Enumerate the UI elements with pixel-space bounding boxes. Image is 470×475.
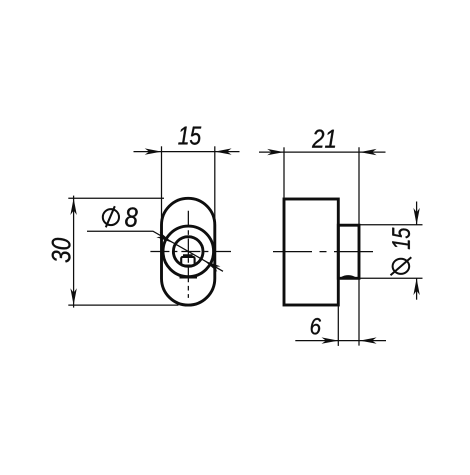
dimension 15: dimension line [134, 151, 240, 153]
dimension diam 15: bottom arrow [413, 278, 419, 295]
front view: spindle hole circle (diam 8) [173, 237, 203, 267]
dimension 21: left arrow [267, 149, 284, 155]
dimension 30: dimension line [73, 196, 75, 308]
dimension diam 8: text 8 [125, 207, 138, 227]
dimension 21: text [312, 130, 335, 148]
side view: fillet bump at boss bottom [341, 276, 355, 278]
dimension 30: top arrow [70, 198, 76, 215]
dimension 21: right arrow [360, 149, 377, 155]
dimension 15: extension lines [161, 146, 163, 224]
dimension 6: text [311, 318, 321, 335]
dimension 15: text [178, 127, 201, 145]
dimension 21: extension lines [283, 147, 285, 198]
dimension 6: extension line [337, 306, 339, 346]
front view: knob base circle [163, 226, 214, 277]
dimension diam 8: lower-right arrow [204, 261, 220, 272]
side view: knob body rectangle [284, 199, 338, 305]
front view: oval knob outline [162, 198, 215, 305]
dimension diam 8: upper-left arrow [156, 232, 172, 243]
dimension diam 15: extension lines [360, 224, 423, 226]
dimension 6: dimension line [295, 340, 386, 342]
front view: horizontal centerline [150, 251, 231, 253]
dimension 6: right arrow [360, 337, 377, 343]
front view: flat chord at bottom of base circle [180, 276, 198, 278]
side view: horizontal centerline [273, 251, 373, 253]
dimension diam 8: leader line [87, 231, 223, 271]
dimension 30: text [52, 238, 71, 263]
dimension diam 15: diameter symbol [393, 259, 410, 274]
dimension 21: dimension line [259, 151, 386, 153]
front view: vertical centerline [187, 211, 189, 298]
dimension diam 8: diameter symbol [103, 209, 119, 225]
dimension 6: left arrow [322, 337, 339, 343]
dimension 15: left arrow [145, 148, 162, 154]
dimension 30: bottom arrow [70, 288, 76, 305]
dimension 15: right arrow [215, 148, 232, 154]
dimension diam 15: text 15 [392, 228, 410, 250]
dimension diam 15: top arrow [413, 208, 419, 225]
side view: cylinder boss (diam 15) [338, 225, 359, 278]
dimension diam 15: dimension line segments [416, 202, 418, 225]
front view: keyway profile [181, 257, 194, 266]
dimension 30: extension lines [68, 197, 164, 199]
